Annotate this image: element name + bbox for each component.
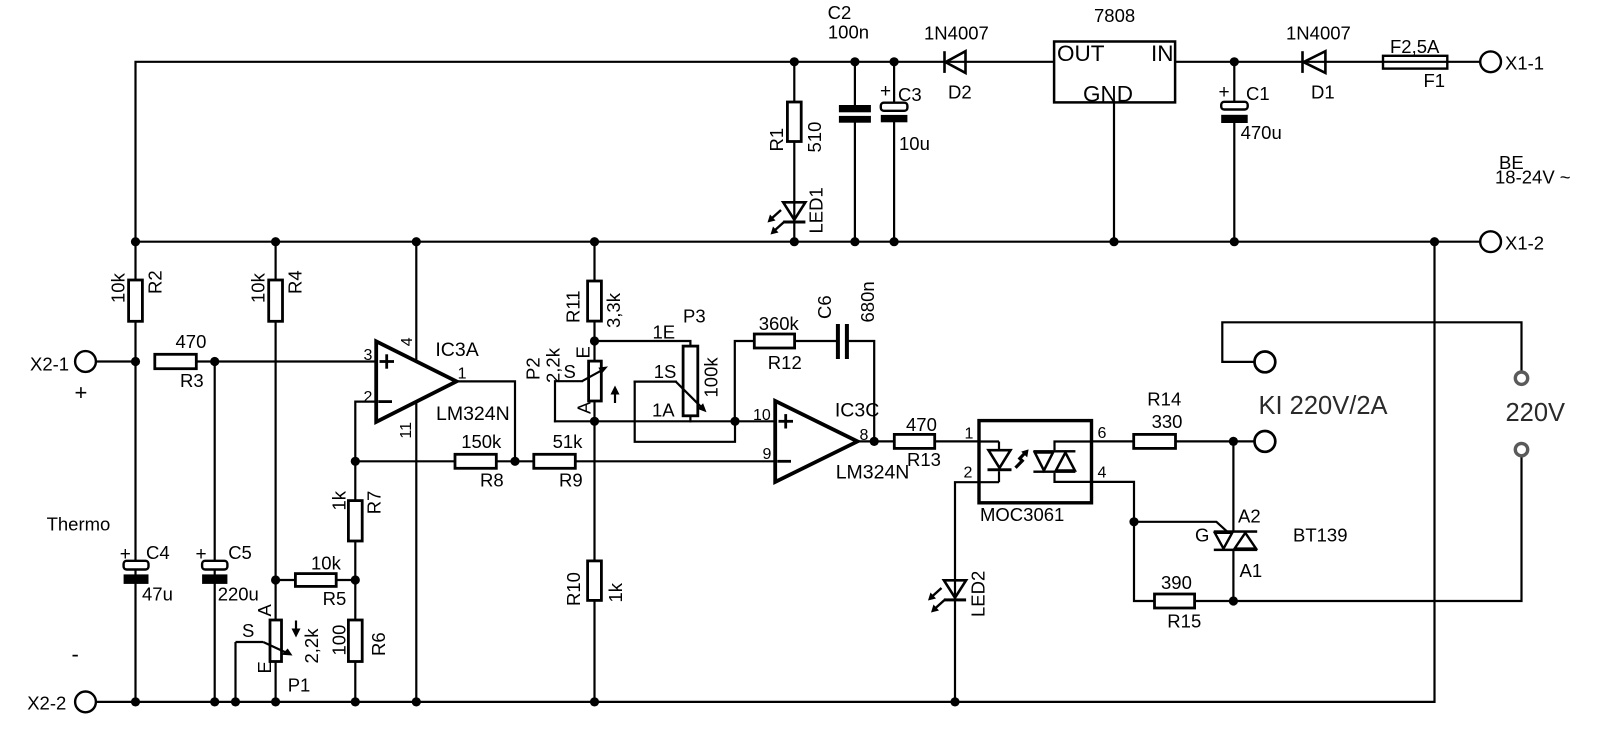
wire C5 column bbox=[214, 362, 216, 702]
svg-text:R14: R14 bbox=[1147, 389, 1181, 410]
svg-text:P2: P2 bbox=[522, 357, 543, 380]
wire MOC pin 4 path bbox=[1092, 482, 1155, 601]
resistor R6 100 bbox=[348, 620, 362, 662]
wire C2 bottom bbox=[854, 123, 856, 242]
wire R1 to LED1 bbox=[793, 142, 795, 242]
wire second rail (DC ground) bbox=[136, 241, 1481, 243]
svg-text:4: 4 bbox=[399, 337, 416, 346]
wire net 1E bbox=[595, 341, 691, 346]
wire R4/P1 column bbox=[275, 242, 277, 702]
svg-text:10u: 10u bbox=[899, 133, 930, 154]
capacitor C4 47u bbox=[124, 561, 149, 584]
svg-text:100: 100 bbox=[329, 625, 350, 656]
svg-text:S: S bbox=[564, 361, 576, 382]
resistor R11 3,3k bbox=[588, 281, 602, 321]
wire P3 bottom pin bbox=[689, 416, 691, 422]
svg-text:330: 330 bbox=[1152, 411, 1183, 432]
svg-text:LM324N: LM324N bbox=[836, 462, 910, 484]
svg-text:3: 3 bbox=[364, 347, 373, 364]
svg-text:1N4007: 1N4007 bbox=[1286, 23, 1351, 44]
wire P2 S loop bbox=[555, 381, 582, 421]
svg-text:A2: A2 bbox=[1238, 506, 1261, 527]
LED LED1 bbox=[768, 202, 806, 234]
wire R12 to C6 bbox=[795, 340, 836, 342]
svg-text:-: - bbox=[72, 642, 79, 667]
wire 7808 GND pin bbox=[1113, 102, 1115, 241]
svg-text:9: 9 bbox=[763, 446, 772, 463]
wire IC3C output to R13 bbox=[858, 440, 895, 442]
wire IC3A output to feedback node bbox=[457, 381, 516, 461]
wire MOC pin 6 to R14 bbox=[1092, 440, 1134, 442]
wire R8 left lead bbox=[355, 460, 455, 462]
terminal 220V top bbox=[1515, 372, 1527, 384]
wire R10 bottom bbox=[593, 600, 595, 702]
wire R5 leads bbox=[276, 579, 296, 581]
svg-text:+: + bbox=[1219, 82, 1230, 103]
wire gate G bbox=[1134, 522, 1227, 532]
terminal X2-2 bbox=[75, 692, 96, 713]
svg-text:P3: P3 bbox=[683, 306, 706, 327]
svg-text:1k: 1k bbox=[329, 490, 350, 510]
wire bottom rail bbox=[96, 242, 1435, 702]
op-amp U IC3A bbox=[376, 341, 456, 422]
capacitor C2 100n bbox=[839, 105, 871, 123]
op-amp U IC3C bbox=[775, 401, 857, 482]
wire 220V bottom to A1 row bbox=[1234, 456, 1521, 601]
diode D1 1N4007 bbox=[1303, 51, 1326, 73]
wire R11/P2/R10 column bbox=[593, 242, 595, 281]
potentiometer P1 2,2k bbox=[236, 620, 301, 702]
svg-text:LED2: LED2 bbox=[968, 571, 989, 617]
svg-text:R1: R1 bbox=[766, 128, 787, 152]
svg-text:4: 4 bbox=[1098, 465, 1107, 482]
svg-text:6: 6 bbox=[1098, 425, 1107, 442]
wire 1S horizontal bbox=[635, 381, 676, 383]
svg-text:E: E bbox=[254, 661, 275, 673]
svg-text:360k: 360k bbox=[759, 313, 800, 334]
resistor R15 390 bbox=[1155, 594, 1195, 608]
resistor R8 150k bbox=[455, 454, 496, 468]
terminal X2-1 bbox=[75, 351, 96, 372]
svg-text:IN: IN bbox=[1151, 41, 1174, 66]
svg-text:X2-2: X2-2 bbox=[27, 693, 66, 714]
svg-text:R4: R4 bbox=[285, 270, 306, 294]
wire triac A1 bbox=[1232, 551, 1234, 601]
wire R8-R9 junction bbox=[496, 460, 534, 462]
svg-text:C1: C1 bbox=[1246, 83, 1270, 104]
regulator 7808 bbox=[1054, 41, 1175, 107]
terminal X1-1 bbox=[1480, 51, 1501, 72]
svg-text:R2: R2 bbox=[145, 270, 166, 294]
svg-text:C6: C6 bbox=[814, 295, 835, 319]
terminal 220V bottom bbox=[1515, 443, 1527, 455]
resistor R1 510 bbox=[787, 102, 801, 142]
wire C6 to output node bbox=[849, 341, 874, 441]
resistor R7 1k bbox=[348, 501, 362, 541]
svg-text:R5: R5 bbox=[323, 588, 347, 609]
svg-text:A: A bbox=[254, 604, 275, 617]
wire op-amp pin2 loop bbox=[355, 402, 376, 462]
svg-text:LM324N: LM324N bbox=[436, 403, 510, 425]
svg-text:R8: R8 bbox=[480, 470, 504, 491]
wire IC3A pin 11 bbox=[415, 402, 417, 702]
resistor R9 51k bbox=[534, 454, 576, 468]
svg-text:100k: 100k bbox=[701, 357, 722, 398]
wire R3 row to op-amp pin 3 bbox=[196, 360, 376, 362]
svg-text:C3: C3 bbox=[898, 84, 922, 105]
svg-text:MOC3061: MOC3061 bbox=[980, 504, 1064, 525]
svg-text:470: 470 bbox=[176, 331, 207, 352]
resistor R14 330 bbox=[1134, 434, 1176, 448]
svg-text:2: 2 bbox=[964, 465, 973, 482]
diode D2 1N4007 bbox=[945, 51, 966, 73]
svg-text:+: + bbox=[880, 81, 891, 102]
svg-text:220V: 220V bbox=[1506, 399, 1566, 427]
svg-text:C2: C2 bbox=[828, 2, 852, 23]
capacitor C6 680n bbox=[836, 324, 849, 359]
svg-text:R11: R11 bbox=[562, 290, 583, 323]
svg-text:X1-2: X1-2 bbox=[1505, 233, 1544, 254]
relay contact KI bbox=[1255, 352, 1276, 452]
svg-text:1: 1 bbox=[458, 366, 467, 383]
optocoupler MOC3061 bbox=[979, 421, 1092, 503]
svg-text:2: 2 bbox=[364, 389, 373, 406]
svg-text:X2-1: X2-1 bbox=[30, 354, 69, 375]
wire X2-1 stub bbox=[96, 360, 136, 362]
wire C1 column bbox=[1233, 62, 1235, 102]
svg-text:470: 470 bbox=[906, 414, 937, 435]
svg-text:G: G bbox=[1195, 525, 1209, 546]
svg-text:C5: C5 bbox=[228, 542, 252, 563]
svg-text:LED1: LED1 bbox=[805, 187, 826, 233]
svg-text:P1: P1 bbox=[288, 675, 311, 696]
potentiometer P2 2,2k bbox=[582, 361, 620, 403]
resistor R5 10k bbox=[295, 574, 336, 587]
wire pin 10 lead bbox=[735, 420, 775, 422]
svg-text:10k: 10k bbox=[248, 272, 269, 303]
svg-text:10k: 10k bbox=[108, 272, 129, 303]
svg-text:S: S bbox=[242, 620, 254, 641]
wire R15 right lead bbox=[1195, 600, 1234, 602]
svg-text:1N4007: 1N4007 bbox=[924, 23, 989, 44]
wire top rail right segment bbox=[1175, 61, 1480, 63]
svg-text:7808: 7808 bbox=[1094, 5, 1135, 26]
wire P3 1S loop bbox=[635, 382, 735, 442]
resistor R13 470 bbox=[894, 434, 934, 448]
svg-text:R3: R3 bbox=[180, 370, 204, 391]
potentiometer P3 100k bbox=[676, 346, 707, 416]
resistor R4 10k bbox=[269, 280, 283, 321]
svg-text:R10: R10 bbox=[563, 572, 584, 606]
svg-text:R9: R9 bbox=[559, 470, 583, 491]
svg-text:R6: R6 bbox=[368, 632, 389, 656]
svg-text:18-24V ~: 18-24V ~ bbox=[1495, 167, 1571, 188]
svg-text:3,3k: 3,3k bbox=[603, 292, 624, 328]
wire P2 bottom bbox=[593, 401, 595, 561]
wire top rail left segment bbox=[136, 62, 1055, 702]
svg-text:10: 10 bbox=[753, 407, 771, 424]
wire C1 bottom bbox=[1233, 123, 1235, 242]
svg-text:E: E bbox=[573, 346, 594, 358]
svg-text:100n: 100n bbox=[828, 21, 869, 42]
svg-text:8: 8 bbox=[860, 427, 869, 444]
capacitor C1 470u bbox=[1221, 102, 1248, 123]
wire R12 left loop bbox=[735, 341, 755, 421]
wire C3 column bbox=[893, 62, 895, 103]
wire R9 to op-amp pin 9 bbox=[575, 460, 775, 462]
wire A row to pin 10 node bbox=[555, 420, 735, 422]
svg-text:10k: 10k bbox=[311, 553, 342, 574]
svg-text:1S: 1S bbox=[654, 361, 677, 382]
svg-text:390: 390 bbox=[1161, 572, 1192, 593]
wire relay contact top bbox=[1222, 322, 1521, 372]
svg-text:IC3A: IC3A bbox=[435, 339, 478, 361]
wire R7/R6 column bbox=[354, 461, 356, 702]
svg-text:2,2k: 2,2k bbox=[301, 628, 322, 664]
svg-text:510: 510 bbox=[804, 122, 825, 153]
svg-text:150k: 150k bbox=[461, 431, 502, 452]
svg-text:11: 11 bbox=[398, 422, 415, 439]
svg-text:R7: R7 bbox=[364, 491, 385, 515]
svg-text:220u: 220u bbox=[218, 584, 259, 605]
triac BT139 bbox=[1214, 530, 1257, 551]
svg-text:470u: 470u bbox=[1241, 122, 1282, 143]
svg-text:+: + bbox=[196, 544, 207, 565]
svg-text:F1: F1 bbox=[1424, 70, 1446, 91]
wire R14 to relay bbox=[1176, 440, 1255, 442]
resistor R12 360k bbox=[754, 334, 794, 348]
svg-text:D2: D2 bbox=[948, 82, 972, 103]
resistor R10 1k bbox=[588, 561, 602, 601]
svg-text:1A: 1A bbox=[652, 400, 675, 421]
svg-text:1E: 1E bbox=[653, 322, 676, 343]
svg-text:R15: R15 bbox=[1167, 611, 1201, 632]
svg-text:Thermo: Thermo bbox=[47, 514, 111, 535]
wire R1/LED1 column bbox=[793, 62, 795, 102]
svg-text:+: + bbox=[75, 380, 88, 405]
svg-text:47u: 47u bbox=[142, 584, 173, 605]
svg-text:A1: A1 bbox=[1240, 560, 1263, 581]
svg-text:680n: 680n bbox=[857, 281, 878, 322]
wire C3 bottom bbox=[893, 122, 895, 241]
wire R11 bottom to P2 bbox=[593, 321, 595, 361]
wire R13 to MOC pin 1 bbox=[935, 440, 979, 442]
svg-text:GND: GND bbox=[1083, 82, 1133, 107]
svg-text:KI 220V/2A: KI 220V/2A bbox=[1259, 392, 1388, 420]
LED LED2 bbox=[928, 580, 966, 612]
capacitor C3 10u bbox=[881, 103, 908, 123]
svg-text:1k: 1k bbox=[605, 582, 626, 602]
wire IC3A pin 4 supply bbox=[415, 242, 417, 362]
resistor R2 10k bbox=[129, 280, 143, 321]
wire R5 right lead bbox=[336, 579, 355, 581]
svg-text:R13: R13 bbox=[907, 449, 941, 470]
wire MOC pin 2 to LED2 column bbox=[955, 482, 979, 702]
svg-text:+: + bbox=[120, 544, 131, 565]
wire triac A2 bbox=[1232, 441, 1234, 530]
svg-text:BT139: BT139 bbox=[1293, 525, 1348, 546]
capacitor C5 220u bbox=[202, 561, 227, 584]
svg-text:IC3C: IC3C bbox=[835, 400, 879, 422]
svg-text:51k: 51k bbox=[553, 431, 584, 452]
svg-text:F2,5A: F2,5A bbox=[1390, 36, 1440, 57]
wire C2 column bbox=[854, 62, 856, 105]
svg-text:R12: R12 bbox=[768, 352, 802, 373]
fuse F1 F2,5A bbox=[1383, 56, 1447, 69]
svg-text:A: A bbox=[574, 401, 595, 414]
terminal X1-2 bbox=[1480, 231, 1501, 252]
svg-text:C4: C4 bbox=[146, 542, 170, 563]
resistor R3 470 bbox=[155, 354, 197, 368]
svg-text:D1: D1 bbox=[1311, 82, 1335, 103]
svg-text:X1-1: X1-1 bbox=[1505, 53, 1544, 74]
svg-text:2,2k: 2,2k bbox=[543, 347, 564, 383]
svg-text:OUT: OUT bbox=[1057, 41, 1105, 66]
svg-text:1: 1 bbox=[965, 426, 974, 443]
